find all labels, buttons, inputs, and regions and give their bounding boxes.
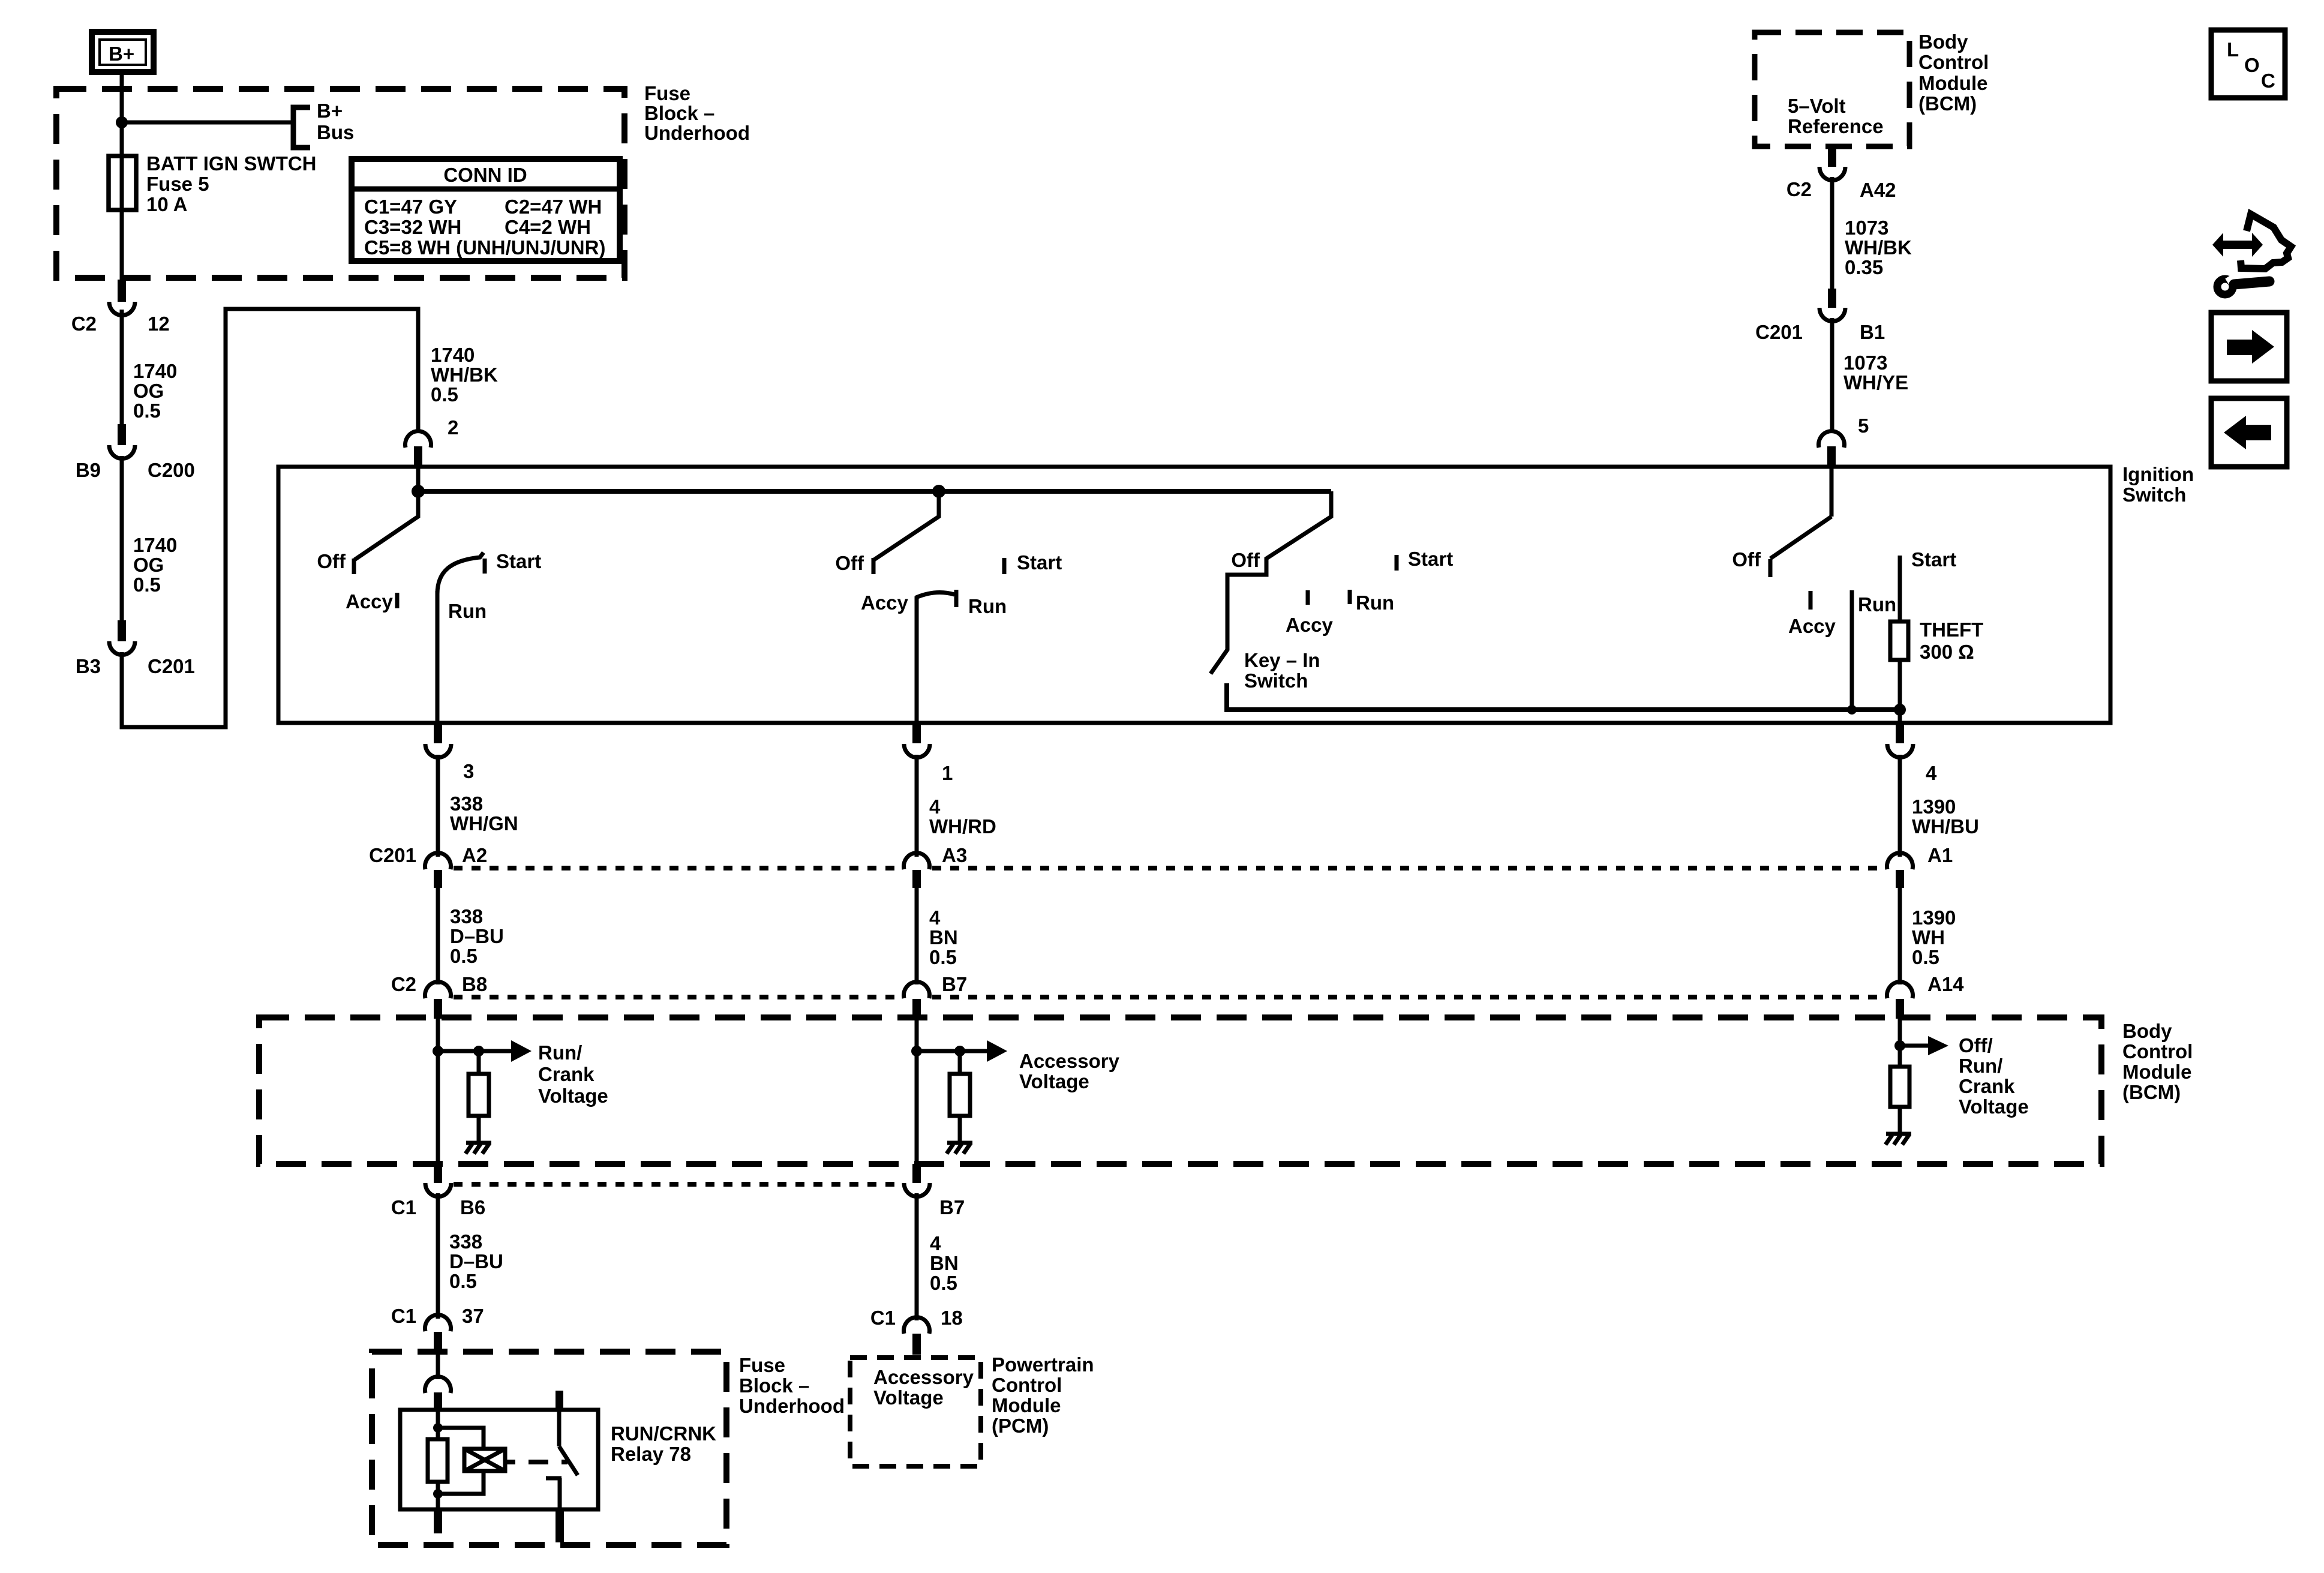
- svg-text:0.5: 0.5: [450, 945, 478, 967]
- switch 1 wiper Off: [354, 467, 418, 574]
- wire label 1740 WH/BK: [431, 344, 498, 406]
- svg-text:A1: A1: [1927, 844, 1953, 866]
- relay pin stubs below: [434, 1509, 442, 1533]
- ground middle: [947, 1143, 972, 1154]
- BCM pulldown resistor left: [469, 1051, 489, 1143]
- svg-text:C1=47 GY: C1=47 GY: [364, 196, 457, 218]
- wire 1390 WH: [1898, 888, 1902, 984]
- svg-text:Module: Module: [992, 1394, 1061, 1416]
- switch 2 labels and contacts: [835, 551, 1062, 617]
- wire 338 D-BU to relay: [436, 1193, 440, 1319]
- relay feed connector inside fuse block: [425, 1352, 451, 1410]
- THEFT resistor 300 ohm: [1890, 619, 1983, 663]
- svg-text:4: 4: [930, 1232, 941, 1254]
- svg-text:C200: C200: [148, 459, 195, 481]
- svg-text:Body: Body: [2122, 1020, 2172, 1042]
- connector A3: [904, 844, 968, 888]
- svg-text:OG: OG: [133, 380, 164, 402]
- svg-text:WH/GN: WH/GN: [450, 812, 518, 834]
- svg-text:Crank: Crank: [1959, 1075, 2015, 1097]
- BCM 5-volt reference dashed box top right: [1755, 32, 1909, 146]
- svg-text:Voltage: Voltage: [538, 1085, 608, 1107]
- connector B9 C200: [76, 424, 195, 481]
- svg-text:3: 3: [463, 760, 474, 782]
- connector C2 B8: [391, 973, 487, 1019]
- svg-text:18: 18: [941, 1307, 963, 1329]
- BCM accessory voltage branch: [911, 1017, 1120, 1164]
- pin 5 connector at ignition switch: [1819, 415, 1869, 467]
- PCM dashed box: [850, 1358, 981, 1466]
- svg-text:1740: 1740: [133, 360, 177, 382]
- svg-text:A42: A42: [1860, 179, 1896, 201]
- svg-text:0.5: 0.5: [431, 383, 458, 406]
- svg-text:Ignition: Ignition: [2122, 463, 2194, 485]
- svg-text:C201: C201: [1755, 321, 1803, 343]
- relay coil circuit: [428, 1410, 448, 1509]
- C1 connector row dotted line below BCM: [454, 1182, 900, 1187]
- svg-text:Start: Start: [496, 550, 541, 572]
- svg-text:0.35: 0.35: [1845, 256, 1883, 278]
- svg-text:C4=2 WH: C4=2 WH: [505, 216, 591, 238]
- svg-text:Fuse: Fuse: [644, 82, 690, 104]
- svg-text:Switch: Switch: [1244, 670, 1308, 692]
- svg-text:4: 4: [929, 906, 941, 929]
- pin 3 connector below ignition switch: [425, 723, 474, 782]
- svg-text:5–Volt: 5–Volt: [1788, 95, 1846, 117]
- svg-text:4: 4: [1926, 762, 1937, 784]
- svg-text:B7: B7: [939, 1196, 965, 1218]
- svg-text:Off/: Off/: [1959, 1034, 1993, 1056]
- switch 4 fed from pin 5: [1732, 469, 1956, 710]
- wire 1740 OG segment 1: [120, 310, 124, 424]
- connector A1: [1887, 844, 1953, 888]
- svg-text:10 A: 10 A: [146, 193, 187, 215]
- svg-text:Run/: Run/: [538, 1041, 582, 1064]
- svg-text:Accy: Accy: [346, 590, 394, 613]
- body control module dashed box: [259, 1017, 2101, 1164]
- wire 1073 WH/YE: [1830, 318, 1834, 431]
- svg-text:Control: Control: [2122, 1040, 2193, 1062]
- start wire below theft resistor: [1898, 660, 1902, 723]
- svg-text:WH/BK: WH/BK: [431, 364, 498, 386]
- svg-text:Accy: Accy: [1286, 614, 1334, 636]
- svg-text:Fuse 5: Fuse 5: [146, 173, 209, 195]
- wire 1073 WH/BK: [1830, 177, 1834, 289]
- LOC legend box: [2211, 30, 2285, 98]
- pin 2 connector at ignition switch: [406, 416, 459, 467]
- svg-text:4: 4: [929, 795, 941, 818]
- svg-text:Body: Body: [1918, 31, 1968, 53]
- svg-text:Run: Run: [1356, 592, 1394, 614]
- connector C201 A2: [369, 844, 487, 888]
- wire 338 D-BU: [436, 888, 440, 984]
- svg-text:(BCM): (BCM): [1918, 92, 1977, 115]
- forward arrow legend box: [2211, 313, 2287, 381]
- svg-text:5: 5: [1858, 415, 1869, 437]
- svg-text:1073: 1073: [1843, 352, 1887, 374]
- wire B+ down to fuse: [120, 72, 124, 158]
- svg-text:C2: C2: [391, 973, 416, 995]
- svg-text:WH/BU: WH/BU: [1912, 815, 1979, 837]
- svg-text:Voltage: Voltage: [1959, 1095, 2029, 1118]
- svg-text:WH: WH: [1912, 926, 1945, 948]
- svg-text:(PCM): (PCM): [992, 1415, 1049, 1437]
- svg-text:D–BU: D–BU: [450, 925, 504, 947]
- svg-text:RUN/CRNK: RUN/CRNK: [611, 1422, 716, 1445]
- connector B3 C201: [76, 620, 195, 677]
- CONN ID table: [352, 159, 620, 261]
- node junction at B+ bus tap: [116, 116, 128, 128]
- connector C1 18: [870, 1307, 963, 1355]
- svg-text:Module: Module: [2122, 1061, 2191, 1083]
- svg-text:B+: B+: [109, 43, 134, 65]
- svg-text:0.5: 0.5: [133, 400, 161, 422]
- svg-text:C1: C1: [391, 1196, 416, 1218]
- svg-text:OG: OG: [133, 554, 164, 576]
- backward arrow legend box: [2211, 398, 2287, 467]
- svg-text:0.5: 0.5: [930, 1272, 957, 1294]
- svg-text:C3=32 WH: C3=32 WH: [364, 216, 461, 238]
- svg-text:B8: B8: [462, 973, 487, 995]
- svg-text:Start: Start: [1408, 548, 1453, 570]
- svg-text:1390: 1390: [1912, 906, 1956, 929]
- svg-text:0.5: 0.5: [133, 574, 161, 596]
- svg-text:Block –: Block –: [739, 1374, 809, 1397]
- svg-text:1073: 1073: [1845, 217, 1888, 239]
- svg-text:37: 37: [462, 1305, 484, 1327]
- B+ battery terminal box: [92, 32, 154, 72]
- svg-text:Underhood: Underhood: [739, 1395, 845, 1417]
- switch 2 run wire to pin 1: [915, 596, 919, 723]
- svg-text:(BCM): (BCM): [2122, 1081, 2181, 1103]
- C201 in-line connector row dotted line: [454, 866, 901, 870]
- connector B7: [904, 973, 968, 1019]
- svg-text:D–BU: D–BU: [449, 1250, 503, 1272]
- svg-text:WH/BK: WH/BK: [1845, 236, 1912, 259]
- svg-text:1740: 1740: [431, 344, 475, 366]
- svg-text:Off: Off: [317, 550, 346, 572]
- BCM pulldown resistor right: [1890, 1046, 1909, 1133]
- svg-text:Run/: Run/: [1959, 1055, 2002, 1077]
- pin 1 connector below ignition switch: [904, 723, 953, 784]
- svg-text:BATT IGN SWTCH: BATT IGN SWTCH: [146, 152, 317, 175]
- svg-text:338: 338: [450, 792, 483, 815]
- svg-text:Start: Start: [1017, 551, 1062, 574]
- fuse block label: [644, 82, 750, 144]
- ground left: [466, 1143, 491, 1154]
- svg-text:B7: B7: [942, 973, 967, 995]
- svg-text:B9: B9: [76, 459, 101, 481]
- wire 1740 OG segment 2: [120, 456, 124, 620]
- svg-text:Crank: Crank: [538, 1063, 594, 1085]
- wire to B+ Bus: [122, 121, 293, 125]
- svg-text:338: 338: [449, 1230, 482, 1253]
- switch 1 run wire to pin 3: [436, 591, 440, 723]
- svg-text:WH/YE: WH/YE: [1843, 371, 1908, 394]
- svg-text:O: O: [2244, 54, 2260, 76]
- connector C1 B6: [391, 1164, 485, 1218]
- svg-text:C201: C201: [369, 844, 416, 866]
- node at pin2 feed: [412, 485, 425, 498]
- node at switch2 feed: [932, 485, 945, 498]
- wire 4 BN to PCM: [915, 1193, 919, 1320]
- svg-text:C5=8 WH (UNH/UNJ/UNR): C5=8 WH (UNH/UNJ/UNR): [364, 236, 605, 259]
- svg-text:1390: 1390: [1912, 795, 1956, 818]
- svg-text:C2: C2: [71, 313, 97, 335]
- svg-text:Key – In: Key – In: [1244, 649, 1320, 671]
- svg-text:B6: B6: [460, 1196, 485, 1218]
- connector A14: [1887, 973, 1965, 1019]
- BCM off/run/crank voltage branch: [1894, 1017, 2029, 1118]
- svg-text:C: C: [2261, 70, 2275, 92]
- svg-text:1740: 1740: [133, 534, 177, 556]
- connector C2 pin 12: [71, 280, 170, 335]
- svg-text:0.5: 0.5: [929, 946, 957, 968]
- svg-text:A3: A3: [942, 844, 967, 866]
- svg-text:Off: Off: [1231, 549, 1260, 571]
- svg-text:Control: Control: [992, 1374, 1062, 1396]
- svg-text:WH/RD: WH/RD: [929, 815, 996, 837]
- svg-text:0.5: 0.5: [1912, 946, 1939, 968]
- svg-text:Accy: Accy: [1788, 615, 1836, 637]
- diagnostic icon arrows and wrench: [2212, 214, 2291, 295]
- relay coil parallel branch: [438, 1428, 505, 1494]
- svg-text:Accy: Accy: [861, 592, 909, 614]
- svg-text:Module: Module: [1918, 72, 1987, 94]
- svg-text:BN: BN: [930, 1252, 959, 1274]
- svg-text:Off: Off: [1732, 548, 1761, 571]
- BCM pulldown resistor middle: [950, 1051, 970, 1143]
- svg-text:0.5: 0.5: [449, 1270, 477, 1292]
- wire 4 BN: [915, 888, 919, 984]
- svg-text:A14: A14: [1927, 973, 1964, 995]
- svg-text:C201: C201: [148, 655, 195, 677]
- ignition switch box: [278, 467, 2110, 723]
- fuse block underhood dashed box: [56, 89, 624, 278]
- relay switch: [546, 1391, 578, 1509]
- svg-text:Accessory: Accessory: [1019, 1050, 1120, 1072]
- svg-text:B+: B+: [317, 100, 343, 122]
- svg-text:12: 12: [148, 313, 170, 335]
- svg-text:Switch: Switch: [2122, 484, 2186, 506]
- svg-text:Run: Run: [968, 595, 1007, 617]
- B+ Bus terminal: [293, 100, 354, 148]
- RUN/CRNK relay 78 box: [400, 1410, 598, 1509]
- switch 1 run-start curve: [437, 553, 484, 594]
- node run4 to key-in bus: [1847, 705, 1857, 715]
- svg-text:1: 1: [942, 762, 953, 784]
- ground right: [1885, 1134, 1911, 1145]
- C2 connector row dotted line: [454, 995, 901, 999]
- svg-text:Reference: Reference: [1788, 115, 1884, 137]
- wire 4 WH/RD: [915, 755, 919, 857]
- switch 1 labels and contacts: [317, 550, 541, 622]
- svg-text:Bus: Bus: [317, 121, 354, 143]
- BCM run/crank voltage branch: [433, 1017, 608, 1164]
- svg-text:THEFT: THEFT: [1920, 619, 1983, 641]
- svg-text:Powertrain: Powertrain: [992, 1353, 1094, 1376]
- svg-text:Voltage: Voltage: [1019, 1070, 1089, 1092]
- svg-text:Block –: Block –: [644, 102, 714, 124]
- wire route to ignition switch pin 2: [122, 309, 418, 727]
- fuse block underhood dashed box 2: [372, 1352, 726, 1545]
- svg-text:C2=47 WH: C2=47 WH: [505, 196, 602, 218]
- switch 2 wiper Off: [873, 491, 939, 574]
- wire 1390 WH/BU: [1898, 755, 1902, 857]
- bus wire inside ignition switch: [418, 489, 1331, 494]
- svg-text:C2: C2: [1786, 178, 1812, 200]
- svg-text:Accessory: Accessory: [873, 1366, 974, 1388]
- svg-text:CONN ID: CONN ID: [443, 164, 527, 186]
- svg-text:Off: Off: [835, 552, 864, 574]
- connector C201 B1: [1755, 289, 1885, 343]
- svg-text:Fuse: Fuse: [739, 1354, 785, 1376]
- connector B7 below BCM: [904, 1164, 965, 1218]
- connector C2 A42: [1786, 146, 1896, 201]
- relay mechanical link dashes: [505, 1460, 568, 1464]
- switch 3 key-in switch: [1211, 491, 1900, 710]
- svg-text:Underhood: Underhood: [644, 122, 750, 144]
- svg-text:C1: C1: [391, 1305, 416, 1327]
- fuse BATT IGN SWTCH Fuse 5 10A: [109, 152, 317, 280]
- connector C1 37: [391, 1305, 484, 1352]
- svg-text:BN: BN: [929, 926, 958, 948]
- svg-text:L: L: [2227, 38, 2239, 61]
- svg-text:2: 2: [448, 416, 458, 439]
- node start4 output: [1894, 704, 1906, 716]
- svg-text:C1: C1: [870, 1307, 896, 1329]
- svg-text:Relay 78: Relay 78: [611, 1443, 691, 1465]
- svg-text:Control: Control: [1918, 51, 1989, 73]
- svg-text:338: 338: [450, 905, 483, 927]
- svg-text:Voltage: Voltage: [873, 1386, 944, 1409]
- svg-text:Run: Run: [1858, 593, 1896, 616]
- wire 338 WH/GN: [436, 755, 440, 857]
- svg-text:B3: B3: [76, 655, 101, 677]
- pin 4 connector below ignition switch: [1887, 723, 1937, 784]
- svg-text:300 Ω: 300 Ω: [1920, 641, 1974, 663]
- svg-text:Run: Run: [448, 600, 487, 622]
- svg-text:B1: B1: [1860, 321, 1885, 343]
- svg-text:A2: A2: [462, 844, 487, 866]
- svg-text:Start: Start: [1911, 548, 1956, 571]
